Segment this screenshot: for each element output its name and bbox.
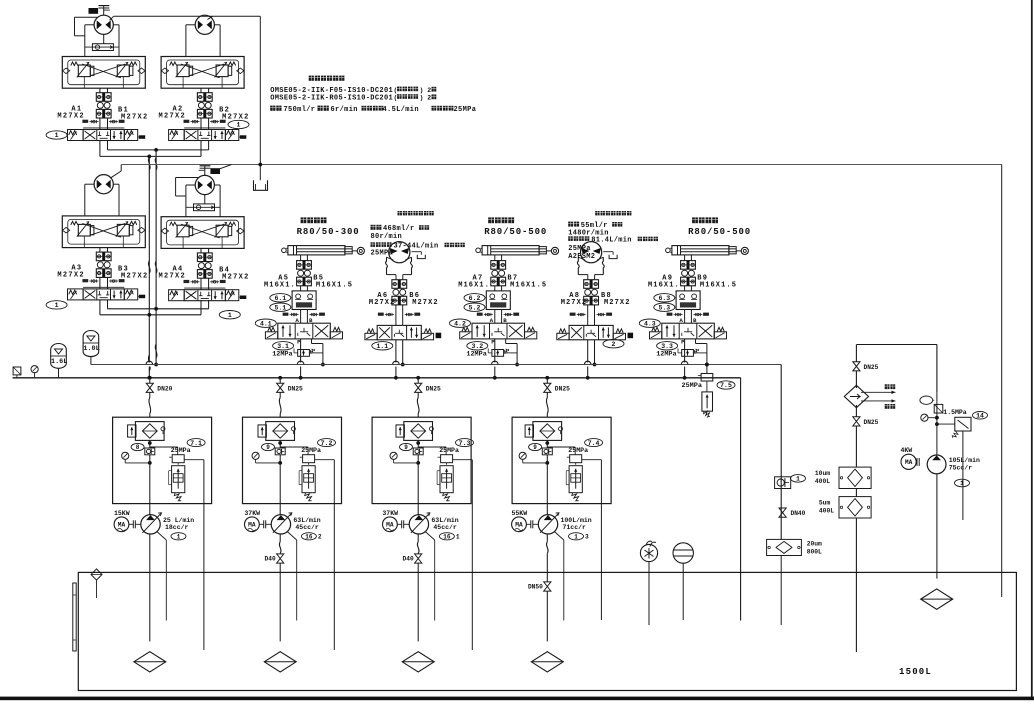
svg-text:468ml/r: 468ml/r: [383, 225, 415, 233]
svg-text:25MPa: 25MPa: [682, 382, 702, 390]
gauge test points: [89, 121, 98, 123]
level gauge sight: [673, 543, 693, 563]
svg-text:20um: 20um: [807, 541, 822, 548]
svg-text:25MPa: 25MPa: [439, 447, 459, 454]
wire: [494, 255, 496, 261]
suction strainer: [264, 652, 296, 672]
wire: [85, 183, 94, 185]
svg-text:1: 1: [796, 476, 800, 483]
svg-text:55KW: 55KW: [512, 510, 528, 517]
svg-text:4.2: 4.2: [454, 320, 466, 327]
wire: [684, 255, 686, 261]
svg-text:12MPa: 12MPa: [272, 350, 292, 358]
coupling block A1/B1: [96, 93, 111, 102]
check valve: [145, 448, 155, 455]
pump station box: [243, 417, 342, 503]
svg-text:71cc/r: 71cc/r: [563, 524, 587, 531]
svg-text:6r/min: 6r/min: [331, 106, 358, 114]
svg-text:9: 9: [266, 444, 270, 451]
svg-text:7.2: 7.2: [321, 440, 333, 447]
svg-text:3.2: 3.2: [471, 343, 483, 350]
svg-text:4.5L/min: 4.5L/min: [383, 106, 419, 114]
svg-text:25 L/min: 25 L/min: [163, 517, 194, 524]
tag 8: [262, 443, 275, 450]
wire: [176, 177, 198, 179]
svg-text:4.3: 4.3: [644, 320, 656, 327]
counterbalance valve block V1: [62, 57, 145, 89]
wire: [200, 248, 202, 253]
wire: [395, 278, 397, 280]
directional valve DV4: [184, 287, 225, 289]
relief outlet: [582, 459, 602, 461]
check valve: [542, 448, 552, 455]
pump suction: [546, 534, 548, 542]
svg-text:10um: 10um: [815, 470, 830, 477]
wire: [75, 16, 97, 18]
relief valve 12MPa: [298, 350, 310, 357]
pressure bus line: [13, 377, 741, 379]
wire: [279, 455, 281, 515]
pilot check block: [486, 291, 510, 310]
svg-text:3: 3: [585, 534, 589, 541]
svg-text:DN25: DN25: [426, 386, 441, 393]
system relief valve 25MPa: [705, 363, 709, 367]
svg-text:M16X1.5: M16X1.5: [700, 282, 737, 290]
accumulator 1.6L: [51, 344, 67, 369]
pump drain: [157, 532, 167, 541]
wire: [684, 310, 686, 324]
suction filter: [404, 422, 433, 441]
label motor spec: [595, 211, 599, 215]
tag 6.2: [464, 294, 485, 302]
svg-text:MA: MA: [386, 522, 394, 529]
svg-text:7.4: 7.4: [588, 440, 600, 447]
wire: [300, 310, 302, 324]
page bottom border bar: [0, 697, 1034, 701]
ball valve DN25 cooler out: [855, 405, 857, 417]
ball valve DN25 pump4 feed: [545, 376, 549, 380]
label motor spec: [398, 211, 402, 215]
filter 5um 400L: [855, 489, 857, 497]
tag 1.1: [372, 342, 393, 350]
svg-text:3.3: 3.3: [661, 343, 673, 350]
relief outlet: [184, 459, 204, 461]
pump suction: [279, 534, 281, 542]
pump 37KW: [245, 517, 260, 532]
tag 5.2: [464, 303, 485, 311]
pump drain: [287, 532, 297, 541]
directional valve DV9: [662, 323, 715, 339]
svg-text:DN25: DN25: [288, 386, 303, 393]
counterbalance valve block V4: [161, 217, 244, 249]
wire T to bus: [505, 339, 507, 344]
tag 6.3: [654, 294, 675, 302]
wire case drain header: [110, 171, 121, 178]
wire: [855, 426, 857, 467]
gauge test points: [674, 314, 683, 316]
svg-text:55ml/r: 55ml/r: [581, 222, 608, 230]
svg-text:M27X2: M27X2: [159, 112, 187, 120]
svg-text:2: 2: [318, 534, 322, 541]
wire: [300, 255, 302, 261]
svg-text:25MPa: 25MPa: [568, 245, 591, 253]
pump station box: [512, 417, 611, 503]
svg-text:63L/min: 63L/min: [293, 517, 320, 524]
cooling loop pipe: [856, 344, 937, 346]
svg-text:14: 14: [976, 413, 984, 420]
tag 3.3: [657, 342, 678, 350]
svg-text:18cc/r: 18cc/r: [165, 524, 189, 531]
svg-text:6.1: 6.1: [274, 295, 286, 302]
svg-text:1.0L: 1.0L: [83, 345, 99, 353]
hydraulic motor M4: [195, 175, 214, 194]
svg-text:1.6L: 1.6L: [51, 358, 67, 366]
svg-text:63L/min: 63L/min: [431, 517, 458, 524]
tag 7.5: [717, 381, 735, 389]
pressure gauge: [252, 452, 259, 459]
wire: [395, 305, 397, 326]
relief valve 25MPa: [441, 455, 453, 463]
svg-text:1.5MPa: 1.5MPa: [943, 409, 967, 416]
svg-text:6.2: 6.2: [469, 295, 481, 302]
svg-text:MA: MA: [905, 459, 913, 466]
pump 15KW: [114, 517, 129, 532]
svg-text:1500L: 1500L: [899, 667, 932, 677]
svg-text:1: 1: [55, 302, 59, 309]
svg-text:25MPa: 25MPa: [568, 447, 588, 454]
svg-text:M27X2: M27X2: [222, 274, 250, 282]
svg-text:6.3: 6.3: [658, 295, 670, 302]
wire motor top header row1: [110, 16, 114, 20]
bus right drops: [740, 378, 742, 621]
thermometer: [640, 544, 657, 561]
tag 4.3: [639, 319, 660, 327]
svg-text:M27X2: M27X2: [369, 299, 396, 307]
relief pilot line: [547, 446, 575, 448]
wire drain drop right: [259, 16, 261, 180]
ball valve DN20 pump1 feed: [148, 376, 152, 380]
shuttle/flushing valve: [92, 44, 113, 51]
ball valve DN25 pump2 feed: [278, 376, 282, 380]
label R80/50-500: [488, 217, 494, 223]
drain tank symbol: [254, 180, 268, 190]
hydraulic motor M2: [195, 15, 214, 34]
svg-text:M27X2: M27X2: [159, 273, 187, 281]
wire: [99, 88, 101, 93]
svg-text:7.3: 7.3: [459, 440, 471, 447]
wire: [300, 286, 302, 291]
wire: [186, 184, 195, 186]
pump 37KW: [383, 517, 398, 532]
wire T to bus: [695, 339, 697, 344]
svg-text:45cc/r: 45cc/r: [433, 524, 457, 531]
svg-text:25MPa: 25MPa: [454, 106, 477, 114]
pressure gauge: [519, 452, 526, 459]
svg-text:R80/50-300: R80/50-300: [297, 227, 360, 237]
svg-text:M16X1.: M16X1.: [264, 282, 296, 290]
hydraulic motor M3: [94, 175, 113, 194]
coupling block A2/B2: [197, 93, 212, 102]
svg-text:16: 16: [305, 534, 313, 541]
wire motor4 brake drain diagonal: [217, 165, 232, 170]
pump station box: [372, 417, 471, 503]
page right border: [1031, 0, 1033, 698]
oil cooler: [844, 385, 868, 407]
pressure gauge: [390, 452, 397, 459]
pump 55KW: [512, 517, 527, 532]
relief valve 25MPa: [303, 455, 315, 463]
svg-text:45cc/r: 45cc/r: [295, 524, 319, 531]
svg-text:3.1: 3.1: [277, 343, 289, 350]
wire: [684, 286, 686, 291]
directional valve DV3: [83, 286, 124, 288]
wire: [936, 392, 938, 455]
svg-text:25MPa: 25MPa: [301, 447, 321, 454]
air breather symbol: [13, 367, 21, 375]
svg-text:7.5: 7.5: [720, 382, 732, 389]
relief outlet: [453, 459, 473, 461]
tag 3.1: [273, 342, 294, 350]
tag 8: [131, 443, 144, 450]
svg-text:5.2: 5.2: [469, 304, 481, 311]
gauge test points: [577, 314, 586, 316]
shuttle/flushing valve: [194, 204, 215, 211]
counterbalance valve block V2: [161, 57, 244, 89]
coupling block A9/B9: [681, 261, 696, 270]
pump drain: [554, 532, 564, 541]
coupling block A6/B6: [392, 280, 407, 289]
ball valve DN25 cooler in: [853, 362, 860, 371]
svg-text:4KW: 4KW: [901, 447, 913, 454]
oil tank 1500L: [78, 572, 1016, 690]
svg-text:1: 1: [456, 534, 460, 541]
wire: [149, 440, 151, 448]
relief outlet: [315, 459, 335, 461]
svg-text:D40: D40: [403, 556, 414, 563]
pilot check block: [292, 291, 316, 310]
tag 4.2: [450, 319, 471, 327]
hydraulic motor M6: [389, 242, 410, 263]
svg-text:37-44L/min: 37-44L/min: [394, 242, 439, 250]
gauge test points: [484, 314, 493, 316]
svg-text:9: 9: [404, 444, 408, 451]
svg-text:MA: MA: [118, 522, 126, 529]
svg-text:8: 8: [136, 444, 140, 451]
svg-text:M27X2: M27X2: [412, 299, 439, 307]
suction strainer: [134, 652, 166, 672]
check valve: [413, 448, 423, 455]
relief pilot line: [150, 446, 178, 448]
coupling block A3/B3: [96, 252, 111, 261]
pump station box: [113, 417, 212, 503]
svg-text:9: 9: [533, 444, 537, 451]
gauge test points: [191, 281, 200, 283]
svg-text:OMSE05-2-IIK-R05-IS10-DC201: OMSE05-2-IIK-R05-IS10-DC201: [270, 95, 393, 103]
svg-text:M16X1.5: M16X1.5: [316, 282, 353, 290]
svg-text:DN40: DN40: [791, 510, 806, 517]
svg-text:1: 1: [237, 122, 241, 129]
label walking motor spec: [309, 76, 314, 81]
pressure gauge: [122, 452, 129, 459]
air flow arrows: [861, 391, 895, 393]
tag 8: [529, 443, 542, 450]
ball valve DN40 return: [779, 508, 786, 517]
relief pilot line: [280, 446, 308, 448]
wire: [417, 455, 419, 515]
wire: [99, 118, 101, 130]
wire: [494, 310, 496, 324]
tag 2: [603, 340, 624, 348]
svg-text:D40: D40: [265, 556, 276, 563]
svg-text:1.1: 1.1: [376, 343, 388, 350]
svg-text:100L/min: 100L/min: [561, 517, 592, 524]
relief pilot line: [418, 446, 446, 448]
gauge test points: [191, 121, 200, 123]
label R80/50-300: [301, 217, 307, 223]
tag 5.3: [654, 303, 675, 311]
svg-text:R80/50-500: R80/50-500: [688, 227, 751, 237]
directional valve DV2: [184, 127, 225, 129]
tag 7.1: [187, 439, 205, 447]
wire row1 P/T collectors: [107, 141, 109, 150]
directional valve DV5: [278, 323, 331, 339]
suction filter: [135, 422, 164, 441]
ball valve DN25 pump3 feed: [416, 376, 420, 380]
suction strainer: [402, 652, 434, 672]
svg-text:M27X2: M27X2: [561, 299, 588, 307]
svg-text:(: (: [394, 87, 398, 94]
relief valve 12MPa: [492, 350, 504, 357]
wire: [417, 440, 419, 448]
wire: [200, 278, 202, 290]
svg-text:16: 16: [443, 534, 451, 541]
svg-text:M16X1.: M16X1.: [458, 282, 490, 290]
coupling block A5/B5: [297, 261, 312, 270]
svg-text:80r/min: 80r/min: [371, 233, 403, 241]
svg-text:M16X1.5: M16X1.5: [510, 282, 547, 290]
gauge group top: [920, 396, 933, 404]
hydraulic motor M1: [94, 15, 113, 34]
svg-text:M27X2: M27X2: [604, 299, 631, 307]
svg-text:4.1: 4.1: [260, 320, 272, 327]
suction filter: [266, 422, 295, 441]
coupling block A8/B8: [584, 280, 599, 289]
svg-text:DN25: DN25: [864, 419, 879, 426]
pressure gauge: [31, 366, 38, 373]
tank breather: [91, 569, 102, 580]
svg-text:15KW: 15KW: [114, 510, 130, 517]
wire to buses: [395, 340, 397, 378]
suction filter: [533, 422, 562, 441]
wire: [855, 518, 857, 652]
main riser pair: [148, 156, 150, 371]
pilot check block: [676, 291, 700, 310]
return filter 20um 800L: [767, 539, 802, 555]
svg-text:37KW: 37KW: [244, 510, 260, 517]
wire: [200, 88, 202, 93]
check valve: [275, 448, 285, 455]
cylinder CYL3: [666, 248, 671, 253]
svg-text:M16X1.: M16X1.: [648, 282, 680, 290]
gauge test points: [385, 314, 394, 316]
svg-text:M27X2: M27X2: [57, 112, 85, 120]
svg-text:2: 2: [612, 341, 616, 348]
svg-text:750ml/r: 750ml/r: [284, 106, 316, 114]
tag 8: [400, 443, 413, 450]
svg-text:1: 1: [960, 480, 964, 487]
cylinder CYL1: [282, 248, 287, 253]
tag 1: [955, 479, 970, 487]
svg-text:5.1: 5.1: [274, 304, 286, 311]
wire: [149, 455, 151, 515]
svg-text:5.3: 5.3: [658, 304, 670, 311]
svg-text:M27X2: M27X2: [121, 273, 149, 281]
svg-text:R80/50-500: R80/50-500: [484, 227, 547, 237]
coupling block A4/B4: [197, 253, 212, 262]
svg-text:105L/min: 105L/min: [949, 457, 980, 464]
wire: [186, 24, 195, 26]
svg-text:DN20: DN20: [157, 386, 172, 393]
wire: [587, 305, 589, 326]
svg-text:DN50: DN50: [528, 584, 543, 591]
svg-text:1: 1: [55, 132, 59, 139]
svg-text:7.1: 7.1: [190, 440, 202, 447]
relief valve 12MPa: [682, 350, 694, 357]
wire: [494, 286, 496, 291]
tag 4.1: [255, 319, 276, 327]
svg-text:25MPa: 25MPa: [171, 447, 191, 454]
return strainer: [921, 589, 953, 609]
filter 10um 400L: [839, 467, 871, 488]
svg-text:12MPa: 12MPa: [466, 350, 486, 358]
gauge test points: [89, 280, 98, 282]
svg-text:1: 1: [574, 534, 578, 541]
gauge test points: [290, 314, 299, 316]
svg-text:MA: MA: [515, 522, 523, 529]
counterbalance valve block V3: [62, 216, 145, 248]
cylinder CYL2: [476, 248, 481, 253]
directional valve DV1: [83, 127, 124, 129]
wire: [200, 118, 202, 130]
pump drain: [425, 532, 435, 541]
svg-text:1: 1: [228, 312, 232, 319]
directional valve DV8: [569, 325, 613, 339]
svg-text:37KW: 37KW: [382, 510, 398, 517]
svg-text:75cc/r: 75cc/r: [949, 465, 973, 472]
tag 14: [973, 412, 988, 420]
wire: [546, 440, 548, 448]
tag 5.1: [270, 303, 291, 311]
wire T to bus: [311, 339, 313, 344]
accumulator 1.0L: [83, 331, 99, 357]
tag 7.2: [318, 439, 336, 447]
wire: [279, 440, 281, 448]
svg-text:) 2: ) 2: [420, 95, 432, 102]
relief valve 25MPa: [570, 455, 582, 463]
coupling block A7/B7: [491, 261, 506, 270]
svg-text:DN25: DN25: [555, 386, 570, 393]
relief valve 25MPa: [172, 455, 184, 463]
return bus line: [91, 364, 781, 366]
wire: [85, 24, 94, 26]
svg-text:MA: MA: [248, 522, 256, 529]
label R80/50-500: [692, 217, 698, 223]
directional valve DV7: [472, 323, 525, 339]
tag 11: [791, 475, 806, 483]
tag 7.3: [456, 439, 474, 447]
wire: [546, 455, 548, 515]
circulation pump 4KW: [901, 454, 916, 469]
